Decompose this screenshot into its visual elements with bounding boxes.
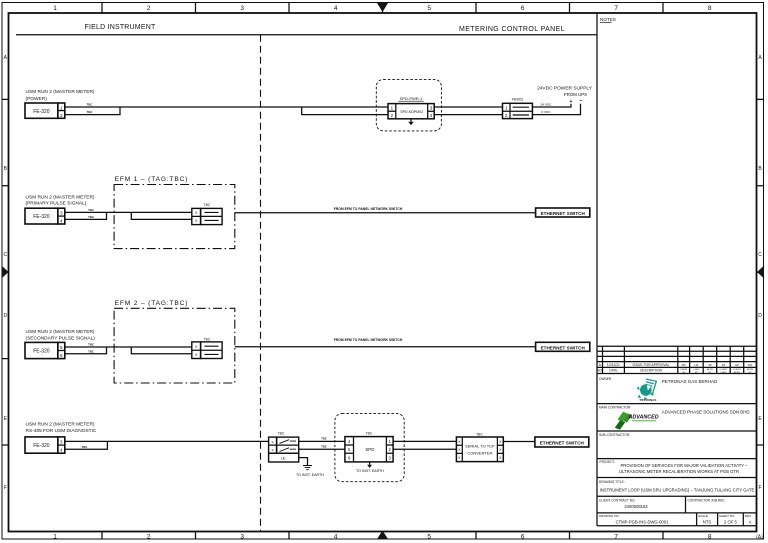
- svg-text:TBC: TBC: [87, 110, 93, 114]
- svg-text:(POWER): (POWER): [26, 96, 48, 102]
- svg-text:HA: HA: [694, 363, 698, 367]
- svg-text:E: E: [4, 416, 8, 422]
- svg-text:METERING CONTROL PANEL: METERING CONTROL PANEL: [459, 26, 565, 33]
- center marker triangle bottom: [377, 531, 388, 540]
- svg-text:7: 7: [614, 534, 618, 541]
- svg-text:A: A: [4, 55, 8, 61]
- svg-text:2 OF 5: 2 OF 5: [724, 520, 737, 525]
- svg-text:A: A: [599, 363, 602, 367]
- wire FE-320 merge row4: [65, 441, 108, 449]
- sub-contractor label: [599, 433, 630, 437]
- svg-text:C: C: [758, 252, 762, 258]
- wire labels TBC between TB and SPD: [321, 436, 327, 448]
- svg-text:MA: MA: [748, 363, 752, 367]
- drawing title section: [599, 480, 625, 484]
- svg-text:MF: MF: [682, 363, 686, 367]
- svg-text:(PRIMARY PULSE SIGNAL): (PRIMARY PULSE SIGNAL): [26, 201, 87, 207]
- svg-text:TBC: TBC: [88, 343, 94, 347]
- svg-text:CLIENT: CLIENT: [720, 369, 728, 371]
- svg-text:NTS: NTS: [703, 520, 712, 525]
- bottom ruler ticks: [102, 532, 663, 540]
- instrument FE-320 row4: [25, 437, 58, 453]
- EFM 1 dashed enclosure: [114, 185, 235, 249]
- svg-text:FE-320: FE-320: [33, 443, 50, 449]
- svg-text:ETHERNET SWITCH: ETHERNET SWITCH: [541, 345, 586, 350]
- ethernet switch row4: [535, 437, 589, 447]
- voltage labels: [541, 102, 553, 114]
- svg-text:AZ: AZ: [735, 363, 739, 367]
- SPD TBC label row4: [366, 432, 373, 436]
- svg-text:USM RUN 2 (MASTER METER): USM RUN 2 (MASTER METER): [26, 194, 95, 200]
- top ruler numbers: [53, 5, 712, 12]
- svg-text:2: 2: [505, 113, 508, 118]
- svg-text:7: 7: [614, 5, 618, 12]
- svg-text:FE-320: FE-320: [33, 109, 50, 115]
- svg-text:+: +: [569, 99, 572, 105]
- bottom ruler numbers: [53, 534, 764, 541]
- svg-text:5: 5: [427, 5, 431, 12]
- svg-text:USM RUN 2 (MASTER METER): USM RUN 2 (MASTER METER): [26, 89, 95, 95]
- svg-text:2: 2: [391, 113, 394, 118]
- header field instrument title: [85, 24, 565, 33]
- surge protector SPD-KDPM02: [388, 104, 434, 119]
- svg-text:DRAWING TITLE:: DRAWING TITLE:: [599, 480, 625, 484]
- svg-text:1: 1: [53, 534, 57, 541]
- right band dividers: [757, 99, 764, 445]
- wire label row2: [334, 207, 403, 211]
- svg-text:ADVANCED: ADVANCED: [628, 415, 659, 421]
- wires SPD to converter row4: [393, 441, 456, 449]
- EFM1 terminal TBC label: [204, 203, 211, 207]
- svg-text:6: 6: [521, 534, 525, 541]
- svg-text:SUB-CONTRACTOR:: SUB-CONTRACTOR:: [599, 433, 630, 437]
- svg-text:SHEET NO.: SHEET NO.: [719, 514, 735, 518]
- svg-text:FE-320: FE-320: [33, 214, 50, 220]
- svg-text:CHKD: CHKD: [693, 369, 700, 371]
- svg-text:12/11/21: 12/11/21: [607, 363, 620, 367]
- wire FE-320-1 to SPD row1: [65, 106, 388, 108]
- wire split to SPD-2 row1: [302, 107, 388, 115]
- svg-text:FROM EFM TO PANEL NETWORK SWIT: FROM EFM TO PANEL NETWORK SWITCH: [334, 338, 403, 342]
- svg-text:6: 6: [60, 353, 63, 358]
- svg-text:TBC: TBC: [82, 445, 88, 449]
- svg-text:X: X: [458, 448, 461, 452]
- svg-text:CLIENT CONTRACT NO.: CLIENT CONTRACT NO.: [599, 499, 635, 503]
- svg-text:EFM 1 – (TAG:TBC): EFM 1 – (TAG:TBC): [115, 176, 189, 183]
- svg-text:X: X: [195, 211, 198, 215]
- main contractor name: [662, 409, 750, 414]
- svg-text:DESCRIPTION: DESCRIPTION: [640, 369, 662, 373]
- drawing number row dividers: [697, 513, 744, 526]
- svg-text:1: 1: [60, 105, 63, 110]
- svg-text:PROVISION OF SERVICES FOR MAJO: PROVISION OF SERVICES FOR MAJOR VALIDATI…: [621, 463, 749, 468]
- svg-text:5: 5: [348, 447, 351, 452]
- svg-text:CTMP-PGB-INS-DWG-0001: CTMP-PGB-INS-DWG-0001: [616, 520, 669, 525]
- svg-text:DRAWING NO.: DRAWING NO.: [599, 514, 620, 518]
- earth label row4: [296, 473, 324, 477]
- svg-text:INSTRUMENT LOOP (USM SPU UPGRA: INSTRUMENT LOOP (USM SPU UPGRADING) – TA…: [600, 487, 755, 492]
- svg-text:CONVERTER: CONVERTER: [467, 451, 492, 456]
- wire 24VDC to supply: [532, 104, 571, 107]
- svg-text:SPD-PWR-1: SPD-PWR-1: [400, 96, 423, 101]
- svg-text:X: X: [195, 219, 198, 223]
- svg-text:TBC: TBC: [88, 215, 94, 219]
- svg-text:5: 5: [427, 534, 431, 541]
- advanced wordmark: [628, 415, 659, 421]
- svg-text:1: 1: [505, 105, 508, 110]
- svg-text:TBC: TBC: [366, 432, 373, 436]
- ethernet switch row3: [536, 342, 590, 351]
- wire FE-320-3 to EFM1 terminal: [65, 211, 192, 213]
- revision row A: [599, 363, 753, 367]
- svg-text:PETRONAS GAS BERHAD: PETRONAS GAS BERHAD: [662, 379, 718, 384]
- svg-text:TBC: TBC: [278, 431, 285, 435]
- svg-text:TBC: TBC: [476, 432, 483, 436]
- fuse block FB002 label: [512, 97, 525, 102]
- instrument FE-320 row1: [25, 103, 58, 118]
- svg-text:I.E.: I.E.: [281, 456, 287, 461]
- svg-text:24 VDC: 24 VDC: [541, 102, 553, 106]
- svg-text:ULTRASONIC METER RECALIBRATION: ULTRASONIC METER RECALIBRATION WORKS AT …: [619, 469, 739, 474]
- row2 instrument label: [26, 194, 95, 206]
- svg-text:4: 4: [334, 534, 338, 541]
- svg-text:SCALE: SCALE: [698, 514, 708, 518]
- svg-text:TBC: TBC: [321, 436, 327, 440]
- advanced logo arrows: [615, 412, 632, 430]
- svg-text:NOTES: NOTES: [600, 17, 616, 22]
- svg-text:2: 2: [147, 534, 151, 541]
- svg-text:TBC: TBC: [204, 337, 211, 341]
- svg-text:1: 1: [389, 439, 392, 444]
- svg-text:APPR: APPR: [747, 368, 753, 371]
- svg-text:MAIN CONTRACTOR: MAIN CONTRACTOR: [599, 406, 631, 410]
- svg-text:0 VDC: 0 VDC: [541, 110, 551, 114]
- revision table verticals: [603, 346, 744, 373]
- svg-text:NO.: NO.: [597, 369, 603, 373]
- svg-text:2: 2: [389, 447, 392, 452]
- svg-text:CLIENT: CLIENT: [733, 369, 741, 371]
- wire converter to ethernet switch row4: [503, 441, 535, 443]
- SPD-PWR-1 label: [400, 96, 423, 101]
- svg-text:4: 4: [334, 5, 338, 12]
- title block left edge: [596, 346, 598, 526]
- svg-text:D: D: [3, 313, 7, 319]
- svg-text:X: X: [195, 353, 198, 357]
- svg-text:ADVANCED PHASE SOLUTIONS SDN B: ADVANCED PHASE SOLUTIONS SDN BHD: [662, 409, 750, 414]
- SPD dashed enclosure row4: [335, 414, 404, 482]
- svg-text:F: F: [758, 485, 761, 491]
- row4 instrument label: [26, 422, 97, 435]
- converter TBC label: [476, 432, 483, 436]
- wire label row3: [334, 338, 403, 342]
- EFM2 fuse bars: [205, 346, 219, 354]
- svg-text:(A3: (A3: [756, 535, 764, 541]
- fuse block FB002: [503, 103, 533, 118]
- svg-text:SPD-KDPM02: SPD-KDPM02: [400, 110, 423, 114]
- notes box left edge: [596, 13, 598, 346]
- svg-text:2: 2: [147, 5, 151, 12]
- wire FE-320-4 merge row2: [65, 212, 107, 219]
- svg-text:X: X: [271, 448, 274, 452]
- notes label: [600, 17, 616, 22]
- panel disconnect terminal block row4: [269, 437, 277, 453]
- svg-text:SPD: SPD: [365, 447, 374, 452]
- fuse bars: [513, 107, 529, 115]
- title block horizontal rules: [597, 346, 757, 526]
- knife disconnect symbols: [280, 440, 297, 452]
- row1 instrument label: [26, 89, 95, 102]
- svg-text:AZ: AZ: [722, 363, 726, 367]
- svg-text:FE-320: FE-320: [33, 348, 50, 354]
- svg-text:SF: SF: [708, 363, 712, 367]
- center marker triangle right: [757, 266, 764, 278]
- power supply label: [537, 85, 593, 104]
- EFM 1 title: [115, 176, 189, 183]
- EFM 2 dashed enclosure: [114, 308, 235, 383]
- SPD earth label row4: [356, 469, 384, 473]
- wire 0VDC to supply: [532, 104, 580, 115]
- svg-text:TO INST. EARTH: TO INST. EARTH: [296, 473, 324, 477]
- owner section label: [599, 377, 612, 381]
- svg-text:FROM EFM TO PANEL NETWORK SWIT: FROM EFM TO PANEL NETWORK SWITCH: [334, 207, 403, 211]
- wire pair labels TBC row2: [88, 208, 94, 219]
- EFM2 terminal TBC label: [204, 337, 211, 341]
- svg-text:ISSUE FOR APPROVAL: ISSUE FOR APPROVAL: [632, 363, 669, 367]
- right band letters: [758, 55, 762, 491]
- svg-text:A: A: [749, 520, 752, 525]
- svg-text:A: A: [758, 55, 762, 61]
- svg-text:ETHERNET SWITCH: ETHERNET SWITCH: [541, 211, 586, 216]
- svg-text:TBC: TBC: [87, 103, 93, 107]
- svg-text:3: 3: [60, 440, 63, 445]
- left band letters: [3, 55, 7, 491]
- svg-text:24VDC POWER SUPPLY: 24VDC POWER SUPPLY: [537, 85, 593, 91]
- svg-text:F: F: [4, 485, 7, 491]
- svg-text:E: E: [758, 416, 762, 422]
- svg-text:6: 6: [521, 5, 525, 12]
- owner name: [662, 379, 718, 384]
- SPD dashed enclosure row1: [376, 79, 441, 130]
- svg-text:1: 1: [391, 106, 394, 111]
- svg-text:C: C: [3, 252, 7, 258]
- panel TB TBC label row4: [278, 431, 285, 435]
- svg-text:4: 4: [60, 218, 63, 223]
- wire FE-320-6 merge row3: [65, 347, 107, 354]
- svg-text:3: 3: [240, 5, 244, 12]
- svg-text:X: X: [499, 448, 502, 452]
- svg-text:DRWN: DRWN: [680, 369, 687, 371]
- svg-text:(SECONDARY PULSE SIGNAL): (SECONDARY PULSE SIGNAL): [26, 335, 96, 341]
- wire pair labels TBC row1: [87, 103, 93, 115]
- wire EFM1 to ethernet switch: [235, 212, 536, 214]
- petronas logo white notch: [646, 384, 652, 391]
- wire split inside EFM2: [131, 347, 192, 354]
- header underline: [16, 34, 597, 36]
- row3 instrument label: [26, 329, 96, 341]
- main contractor label: [599, 406, 631, 410]
- contract row divider: [685, 496, 687, 513]
- svg-text:2400508163: 2400508163: [624, 504, 648, 509]
- top ruler ticks: [102, 3, 663, 14]
- svg-text:EFM 2 – (TAG:TBC): EFM 2 – (TAG:TBC): [115, 300, 189, 307]
- ethernet switch row2: [536, 208, 590, 217]
- svg-text:X: X: [499, 440, 502, 444]
- svg-text:USM RUN 2 (MASTER METER): USM RUN 2 (MASTER METER): [26, 422, 95, 428]
- wires TB to SPD row4: [299, 441, 345, 449]
- surge protector row4: [345, 437, 393, 462]
- svg-text:D: D: [758, 313, 762, 319]
- svg-text:PROJECT:: PROJECT:: [600, 460, 616, 464]
- wire pair label TBC row4: [82, 445, 88, 449]
- svg-text:CONTRACTOR JOB REF:: CONTRACTOR JOB REF:: [688, 499, 726, 503]
- svg-text:8: 8: [708, 534, 712, 541]
- svg-text:5: 5: [60, 345, 63, 350]
- serial to tcp converter: [456, 437, 503, 462]
- earth wire row4: [299, 458, 308, 466]
- svg-text:REV.: REV.: [745, 514, 752, 518]
- center marker triangle top: [377, 3, 388, 12]
- svg-text:OWNER: OWNER: [599, 377, 612, 381]
- svg-text:X: X: [499, 456, 502, 460]
- svg-text:−: −: [579, 98, 582, 104]
- svg-text:CHKD: CHKD: [720, 372, 727, 374]
- svg-text:SERIAL TO TCP: SERIAL TO TCP: [465, 444, 495, 449]
- svg-text:ETHERNET SWITCH: ETHERNET SWITCH: [540, 441, 585, 446]
- wire FE-320-5 to EFM2 terminal: [65, 346, 192, 348]
- ground symbol row4: [303, 466, 312, 470]
- svg-text:2: 2: [60, 113, 63, 118]
- svg-text:USM RUN 2 (MASTER METER): USM RUN 2 (MASTER METER): [26, 329, 95, 335]
- svg-text:8: 8: [708, 5, 712, 12]
- svg-text:X: X: [195, 345, 198, 349]
- svg-text:PETRONAS: PETRONAS: [640, 398, 657, 402]
- svg-text:B: B: [4, 166, 8, 172]
- svg-text:TBC: TBC: [321, 444, 327, 448]
- EFM 2 title: [115, 300, 189, 307]
- svg-text:1: 1: [53, 5, 57, 12]
- svg-text:TBC: TBC: [88, 349, 94, 353]
- revision header row: [597, 369, 663, 373]
- svg-text:APPR: APPR: [734, 371, 740, 374]
- instrument FE-320 row2: [25, 208, 58, 224]
- svg-text:3: 3: [389, 455, 392, 460]
- petronas wordmark: [640, 398, 657, 402]
- wire pair labels TBC row3: [88, 343, 94, 354]
- petronas logo: [637, 384, 654, 400]
- svg-text:TBC: TBC: [88, 208, 94, 212]
- instrument earth terminal: [269, 453, 299, 462]
- EFM2 terminal block: [192, 342, 201, 359]
- ground below SPD row1: [410, 119, 412, 122]
- svg-text:3: 3: [430, 106, 433, 111]
- svg-text:FB002: FB002: [512, 97, 525, 102]
- SPD earth arrow row4: [369, 462, 371, 465]
- svg-text:X: X: [271, 440, 274, 444]
- center marker triangle left: [2, 266, 9, 278]
- left band dividers: [2, 99, 9, 445]
- svg-text:4: 4: [60, 448, 63, 453]
- wire FE-320-2 merge row1: [65, 107, 120, 115]
- wire split inside EFM1: [131, 212, 192, 219]
- wire EFM2 to ethernet switch: [235, 346, 536, 348]
- EFM1 terminal block: [192, 208, 201, 224]
- svg-text:RS-485 FOR USM DIAGNOSTIC: RS-485 FOR USM DIAGNOSTIC: [26, 428, 97, 434]
- EFM1 fuse bars: [205, 212, 219, 220]
- project section: [600, 460, 616, 464]
- svg-text:TBC: TBC: [204, 203, 211, 207]
- field / panel boundary dashed line: [260, 35, 262, 531]
- svg-text:TO INST. EARTH: TO INST. EARTH: [356, 469, 384, 473]
- svg-text:DATE: DATE: [609, 369, 617, 373]
- svg-text:4: 4: [348, 439, 351, 444]
- wires SPD to fuse row1: [434, 107, 502, 115]
- svg-text:4: 4: [430, 113, 433, 118]
- svg-text:FROM UPS: FROM UPS: [564, 92, 587, 97]
- svg-text:X: X: [458, 456, 461, 460]
- svg-text:X: X: [458, 440, 461, 444]
- svg-text:3: 3: [60, 211, 63, 216]
- svg-text:FIELD INSTRUMENT: FIELD INSTRUMENT: [85, 24, 156, 31]
- wire FE-320 to panel TB row4: [65, 440, 269, 442]
- svg-text:3: 3: [240, 534, 244, 541]
- instrument FE-320 row3: [25, 342, 58, 358]
- svg-text:APPR: APPR: [707, 368, 713, 371]
- svg-text:6: 6: [348, 455, 351, 460]
- svg-text:B: B: [758, 166, 762, 172]
